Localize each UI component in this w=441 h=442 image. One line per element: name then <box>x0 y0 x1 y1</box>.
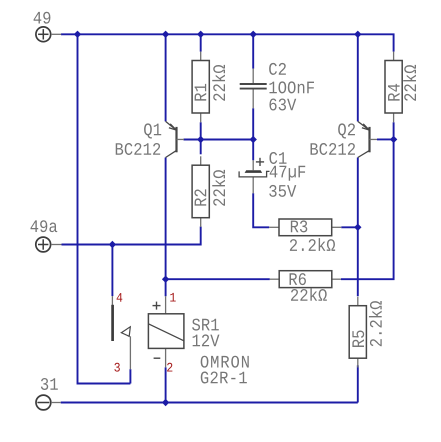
junction top rail / Q1 emitter <box>162 31 169 38</box>
terminal 49 <box>36 27 61 42</box>
pin number 2 (relay coil -) <box>167 363 172 372</box>
wire R6 left <box>166 278 270 280</box>
wire C2 top <box>252 34 254 68</box>
pin number 4 (contact common) <box>117 293 123 302</box>
resistor R3 2.2k <box>269 219 341 251</box>
junction top rail / R1 <box>197 31 204 38</box>
terminal 49a <box>36 237 62 252</box>
junction top rail / Q2 emitter <box>354 31 361 38</box>
terminal 31 <box>36 395 61 410</box>
wire Q2 base <box>377 138 394 140</box>
junction bottom rail / relay pin2 <box>162 399 169 406</box>
wire 49 top rail to R4 <box>61 34 394 51</box>
junction Q2 base node <box>390 136 397 143</box>
label OMRON <box>201 356 249 368</box>
label SR1 <box>192 319 219 331</box>
net label 31 <box>41 378 58 390</box>
wire R4 bottom <box>393 122 395 139</box>
value BC212 of Q2 <box>311 143 355 155</box>
wire R2 top <box>200 140 202 155</box>
pin number 3 (contact NO) <box>114 363 119 372</box>
wire Q2 emitter <box>357 34 359 121</box>
wire C1 top <box>252 140 254 161</box>
resistor R6 22k <box>270 271 341 301</box>
wire 49a row to R2 bottom <box>62 227 201 245</box>
wire Q1 base node row <box>184 139 254 141</box>
wire relay pin2 <box>165 367 167 402</box>
wire C1 bottom to R3 left <box>253 193 269 227</box>
resistor R2 22k <box>192 156 225 227</box>
label Q2 <box>338 123 355 138</box>
junction R3 / Q2 collector / R5 <box>354 224 361 231</box>
transistor Q2 BC212 PNP <box>358 121 377 157</box>
wire contact pin3 <box>129 369 131 383</box>
value BC212 of Q1 <box>116 143 160 155</box>
relay contact (switch) <box>112 296 130 369</box>
value G2R-1 <box>201 372 247 384</box>
wire Q2 collector down to R5 <box>357 158 359 297</box>
junction 49a row / contact pin4 <box>109 241 116 248</box>
label Q1 <box>144 123 161 138</box>
resistor R1 22k <box>192 52 225 123</box>
net label 49a <box>30 220 57 232</box>
pin number 1 (relay coil +) <box>170 293 176 302</box>
net label 49 <box>34 12 51 24</box>
wire C2 bottom <box>252 108 254 139</box>
wire R6 right up to Q2 base node <box>341 139 394 279</box>
value 12V <box>193 334 220 346</box>
wire bottom rail 31 <box>61 402 358 404</box>
transistor Q1 BC212 PNP <box>166 121 184 157</box>
junction top rail / C2 <box>250 31 257 38</box>
wire Q1 collector to relay pin1 <box>165 158 167 297</box>
relay coil SR1 <box>148 296 184 367</box>
junction Q1 base node <box>197 136 204 143</box>
wire left drop from top rail to contact pin3 row <box>78 34 131 383</box>
capacitor C2 100nF <box>240 63 314 111</box>
wire R5 bottom <box>357 365 359 402</box>
junction C1/C2 node <box>250 136 257 143</box>
capacitor C1 47uF polarized <box>239 152 305 197</box>
wire Q1 emitter <box>165 34 167 121</box>
resistor R5 2.2k <box>349 297 382 368</box>
wire R1 top <box>200 34 202 51</box>
junction relay pin1 node <box>162 276 169 283</box>
resistor R4 22k <box>385 52 416 123</box>
wire R3 right to node <box>341 226 358 228</box>
wire R1 bottom <box>200 122 202 139</box>
junction top rail / left drop <box>74 31 81 38</box>
wire contact pin4 drop <box>111 245 113 297</box>
